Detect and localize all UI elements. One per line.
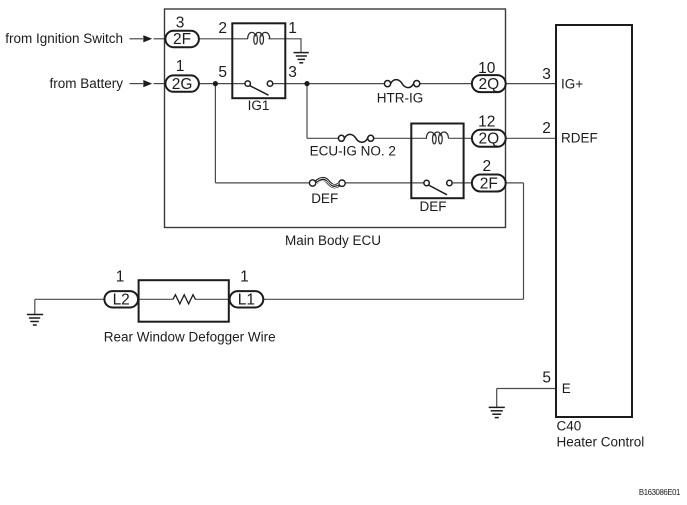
svg-text:L1: L1 [238, 292, 255, 309]
svg-text:1: 1 [176, 58, 185, 75]
svg-text:DEF: DEF [420, 199, 447, 214]
svg-text:3: 3 [288, 64, 297, 81]
svg-text:2F: 2F [480, 175, 498, 192]
svg-text:ECU-IG NO. 2: ECU-IG NO. 2 [310, 144, 396, 159]
svg-text:2G: 2G [172, 76, 193, 93]
svg-text:from Ignition Switch: from Ignition Switch [5, 31, 123, 46]
svg-text:2: 2 [482, 158, 491, 175]
svg-text:2: 2 [218, 20, 227, 37]
svg-text:2F: 2F [173, 31, 191, 48]
svg-text:1: 1 [288, 20, 297, 37]
svg-text:IG+: IG+ [561, 76, 583, 91]
svg-text:5: 5 [218, 64, 227, 81]
svg-text:DEF: DEF [311, 191, 338, 206]
svg-text:E: E [562, 381, 571, 396]
svg-text:1: 1 [116, 269, 125, 286]
svg-text:2Q: 2Q [478, 131, 499, 148]
svg-text:3: 3 [176, 15, 185, 32]
svg-text:B163086E01: B163086E01 [639, 488, 680, 497]
svg-text:Heater Control: Heater Control [557, 435, 645, 450]
svg-text:10: 10 [478, 60, 496, 77]
svg-text:HTR-IG: HTR-IG [377, 91, 424, 106]
svg-text:Main Body ECU: Main Body ECU [285, 233, 381, 248]
svg-text:Rear Window Defogger Wire: Rear Window Defogger Wire [104, 329, 276, 344]
svg-text:IG1: IG1 [248, 98, 270, 113]
svg-text:2: 2 [542, 120, 551, 137]
svg-text:from Battery: from Battery [49, 76, 123, 91]
svg-text:C40: C40 [557, 419, 582, 434]
svg-text:RDEF: RDEF [561, 131, 598, 146]
svg-text:5: 5 [542, 370, 551, 387]
svg-text:12: 12 [478, 114, 495, 131]
svg-text:1: 1 [240, 269, 249, 286]
svg-text:L2: L2 [113, 292, 130, 309]
svg-text:2Q: 2Q [478, 76, 499, 93]
svg-text:3: 3 [542, 66, 551, 83]
